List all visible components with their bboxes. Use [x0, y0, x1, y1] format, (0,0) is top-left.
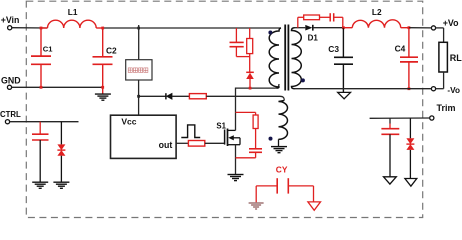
wire output bottom rail	[295, 88, 432, 90]
wire resistor to gate	[205, 142, 225, 144]
startup circuit box	[126, 25, 152, 115]
capacitor CTRL network	[32, 122, 49, 182]
node: C4 top junction	[408, 26, 411, 29]
ground CY right (open triangle red)	[308, 202, 321, 210]
module outline dashed box	[26, 1, 422, 217]
svg-text:-Vo: -Vo	[447, 86, 460, 95]
svg-text:C4: C4	[395, 44, 406, 54]
wire primary bottom	[236, 84, 280, 88]
ground trim cap (open triangle)	[384, 177, 397, 184]
clamp RCD on primary: resistor	[247, 28, 253, 72]
node: C2 bottom junction	[101, 86, 104, 89]
snubber RC across MOSFET	[236, 112, 263, 157]
gate pulse symbol	[181, 125, 200, 138]
terminal CTRL	[0, 110, 21, 124]
terminal Trim	[430, 103, 456, 120]
wire aux to ground	[278, 139, 280, 146]
transistor S1 MOSFET	[216, 121, 240, 146]
node: clamp to primary-bottom junction	[249, 87, 252, 90]
node: C1 top junction	[40, 27, 43, 30]
wire CTRL rail	[10, 121, 79, 123]
ground CTRL cap	[32, 182, 48, 188]
svg-text:GND: GND	[1, 76, 21, 86]
wire out to gate resistor	[176, 142, 188, 144]
ground under aux winding	[271, 147, 287, 153]
capacitor trim network	[381, 118, 399, 176]
node: primary dot	[268, 31, 272, 35]
wire GND rail	[12, 86, 103, 88]
clamp RCD on primary: diode	[246, 72, 254, 88]
ground under C3 (open triangle)	[338, 92, 351, 98]
snubber RC across D1	[298, 13, 343, 28]
terminal +Vo	[431, 18, 459, 30]
terminal GND	[1, 76, 21, 90]
svg-text:+Vo: +Vo	[443, 18, 459, 28]
wire L2 to +Vo	[409, 27, 432, 29]
transformer secondary winding	[292, 28, 302, 89]
svg-text:RL: RL	[450, 53, 462, 63]
wire L1 to transformer primary	[103, 27, 281, 29]
svg-text:C2: C2	[106, 45, 117, 55]
ground trim zener (open triangle)	[405, 179, 417, 187]
svg-text:Vcc: Vcc	[121, 116, 136, 126]
zener CTRL network	[57, 122, 65, 182]
ground under C2	[95, 94, 111, 100]
wire Trim rail	[370, 117, 430, 119]
svg-text:C1: C1	[43, 45, 53, 54]
ground CTRL zener	[53, 182, 69, 188]
diode Vcc (points left)	[166, 93, 190, 99]
wire secondary top to D1	[295, 27, 306, 29]
wire source down	[235, 145, 237, 174]
capacitor C4	[395, 28, 418, 89]
node: C4 bottom junction	[408, 87, 411, 90]
ground CY left	[249, 203, 264, 209]
capacitor CY	[256, 165, 313, 203]
svg-text:CY: CY	[276, 165, 288, 175]
node: C2 top junction	[101, 27, 104, 30]
inductor L1	[41, 7, 103, 28]
capacitor C2	[93, 28, 118, 94]
svg-text:C3: C3	[328, 44, 339, 54]
transformer T1 primary winding	[269, 28, 281, 88]
resistor Vcc rail	[189, 94, 206, 99]
ground under MOSFET	[228, 175, 244, 181]
svg-text:L2: L2	[372, 7, 382, 17]
transformer aux winding	[279, 101, 288, 140]
capacitor C1	[31, 28, 53, 87]
svg-text:CTRL: CTRL	[0, 110, 21, 119]
resistor RL	[436, 28, 462, 89]
node: aux dot	[269, 137, 273, 141]
wire to aux winding	[206, 96, 284, 100]
svg-text:S1: S1	[216, 121, 226, 130]
node: C1 bottom junction	[40, 86, 43, 89]
diode D1	[305, 25, 343, 43]
svg-text:Trim: Trim	[437, 103, 456, 113]
inductor L2	[343, 7, 409, 28]
node: Vcc junction	[137, 95, 140, 98]
transformer core	[284, 25, 286, 91]
resistor gate	[188, 141, 204, 147]
terminal -Vo	[431, 86, 460, 95]
svg-text:L1: L1	[68, 7, 78, 17]
svg-text:+Vin: +Vin	[1, 15, 20, 25]
wire Vcc rail	[139, 95, 166, 97]
IC box	[111, 115, 177, 158]
svg-text:D1: D1	[308, 33, 319, 42]
node: secondary dot	[301, 78, 305, 82]
svg-text:out: out	[159, 140, 173, 150]
terminal +Vin	[1, 15, 20, 30]
wire drain up to transformer	[235, 88, 237, 131]
wire +Vin to C1 junction and L1	[12, 27, 48, 29]
node: C3 top junction	[342, 26, 345, 29]
capacitor C3	[328, 28, 353, 93]
clamp RCD on primary: capacitor	[230, 28, 251, 57]
zener trim network	[406, 118, 414, 178]
node: startup feed junction	[137, 27, 140, 30]
